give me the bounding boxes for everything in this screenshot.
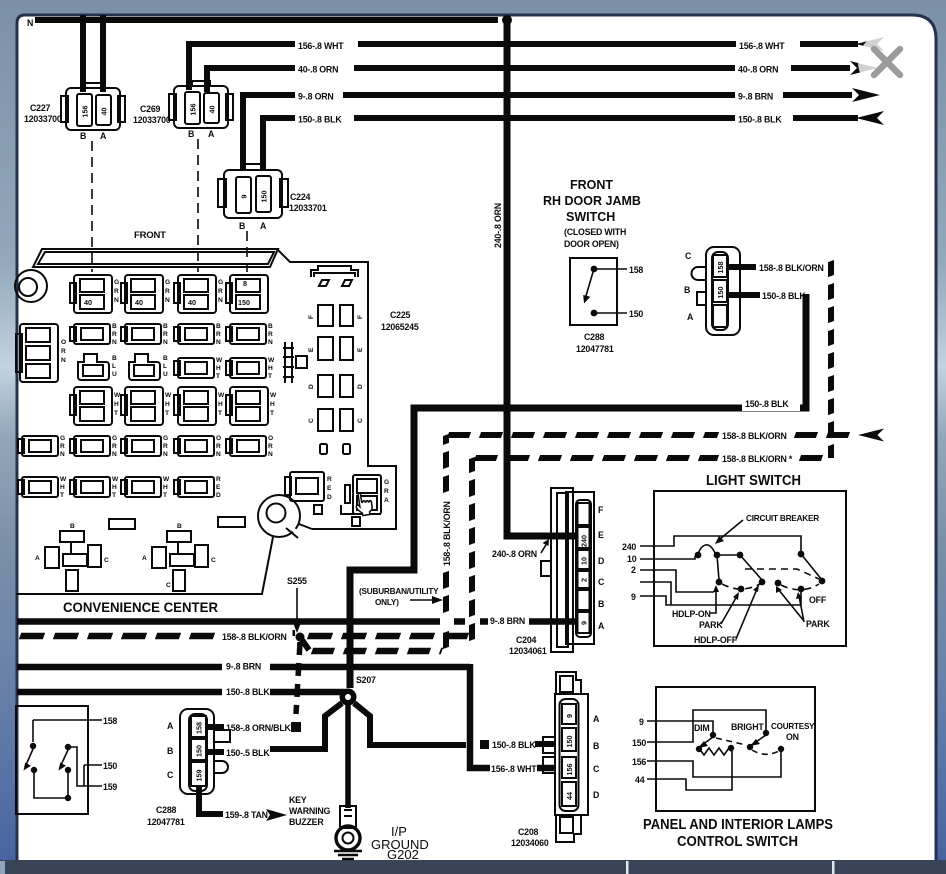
ground G202 ring terminal: [336, 806, 360, 850]
svg-text:10: 10: [580, 557, 589, 565]
wire dashed vertical V2 (from 158 BLK/ORN * wire): [469, 458, 475, 640]
wire dashed vertical from jamb 158 down: [828, 261, 834, 455]
svg-text:DIM: DIM: [694, 723, 710, 733]
svg-text:158-.8 BLK/ORN *: 158-.8 BLK/ORN *: [722, 454, 793, 464]
outline right portion: [278, 250, 396, 529]
contacts: [714, 552, 721, 559]
svg-text:G202: G202: [387, 847, 419, 862]
left column connector ORN: [20, 324, 58, 382]
svg-text:9: 9: [639, 717, 644, 727]
svg-text:DOOR OPEN): DOOR OPEN): [564, 239, 619, 249]
svg-text:HDLP-ON: HDLP-ON: [672, 609, 711, 619]
wire (dashed drop C269-B to convenience center): [197, 139, 199, 272]
svg-text:C288: C288: [156, 805, 177, 815]
wire dashed drop S255 to C288-A: [296, 642, 300, 714]
close button: [858, 33, 916, 91]
dashed travel lines: [722, 584, 760, 589]
svg-text:B: B: [239, 221, 245, 231]
svg-text:LIGHT SWITCH: LIGHT SWITCH: [706, 473, 801, 489]
svg-text:A: A: [593, 714, 600, 724]
svg-text:A: A: [260, 221, 267, 231]
svg-text:F: F: [357, 315, 364, 319]
svg-text:BUZZER: BUZZER: [289, 817, 324, 827]
svg-text:GRN: GRN: [114, 279, 119, 304]
svg-text:BRN: BRN: [163, 323, 168, 346]
svg-text:C: C: [104, 557, 109, 564]
svg-text:S207: S207: [356, 675, 376, 685]
svg-text:156: 156: [565, 764, 574, 776]
pin pair grid F E D C: [308, 305, 364, 431]
svg-text:158: 158: [629, 265, 643, 275]
svg-text:C269: C269: [140, 104, 161, 114]
wire S207 to ground: [345, 705, 351, 808]
svg-text:150-.8 BLK: 150-.8 BLK: [226, 687, 270, 697]
svg-text:ON: ON: [786, 732, 799, 742]
svg-text:A: A: [142, 555, 147, 562]
svg-text:C: C: [598, 577, 605, 587]
svg-text:150-.8 BLK: 150-.8 BLK: [745, 399, 789, 409]
svg-text:9: 9: [580, 621, 589, 625]
svg-text:240: 240: [580, 535, 589, 547]
wire S207 left branch to key switch C288-B: [270, 703, 342, 749]
connector C288 (door jamb): [684, 247, 740, 335]
hand cursor: [354, 492, 373, 516]
svg-text:9-.8 BRN: 9-.8 BRN: [738, 92, 773, 102]
svg-text:9-.8 BRN: 9-.8 BRN: [490, 616, 525, 626]
svg-text:C288: C288: [584, 332, 605, 342]
row1: fuse 40 GRN x3 + 8/150: [70, 275, 112, 313]
svg-text:A: A: [687, 312, 694, 322]
svg-text:BRIGHT: BRIGHT: [731, 722, 764, 732]
row6 WHT WHT WHT RED: [18, 477, 58, 497]
svg-text:12033701: 12033701: [289, 203, 327, 213]
svg-text:40: 40: [135, 298, 143, 307]
wire (dashed drop C227-B to convenience center): [91, 141, 93, 272]
svg-text:FRONT: FRONT: [134, 230, 166, 241]
bottom dark bar: [0, 860, 946, 874]
svg-text:158-.8 BLK/ORN: 158-.8 BLK/ORN: [222, 632, 287, 642]
wire 156-.8 WHT: [189, 44, 295, 90]
wire 150-.8 BLK: [263, 118, 295, 170]
svg-text:150: 150: [716, 287, 725, 299]
wire 158-.8 BLK/ORN * (dashed lower): [475, 455, 718, 461]
svg-text:CONTROL SWITCH: CONTROL SWITCH: [677, 834, 798, 850]
row3: BLU BLU WHT WHT: [78, 354, 109, 380]
small plain rects: [109, 519, 135, 529]
fuse ladder: [283, 342, 294, 383]
wire (dashed drop C224-B to convenience center): [246, 231, 248, 272]
svg-text:9: 9: [565, 714, 574, 718]
BRIGHT blade: [753, 735, 766, 744]
svg-text:159: 159: [195, 770, 204, 782]
svg-text:ORN: ORN: [216, 435, 221, 458]
svg-text:150-.5 BLK: 150-.5 BLK: [226, 748, 270, 758]
svg-text:156: 156: [632, 757, 646, 767]
svg-text:C208: C208: [518, 827, 539, 837]
svg-text:BRN: BRN: [112, 323, 117, 346]
svg-text:C: C: [593, 764, 600, 774]
junction S (dot at top of 240 wire): [502, 15, 512, 25]
small bottom pins: [320, 444, 327, 454]
svg-text:SWITCH: SWITCH: [566, 210, 615, 224]
wire 240-.8 ORN into C204-E: [507, 529, 577, 536]
svg-text:158-.8 BLK/ORN: 158-.8 BLK/ORN: [442, 501, 452, 566]
svg-text:A: A: [208, 129, 215, 139]
svg-text:40-.8 ORN: 40-.8 ORN: [738, 65, 778, 75]
svg-text:40-.8 ORN: 40-.8 ORN: [298, 65, 338, 75]
svg-text:9: 9: [631, 592, 636, 602]
svg-text:COURTESY: COURTESY: [771, 722, 815, 731]
svg-text:B: B: [80, 131, 86, 141]
svg-text:B: B: [188, 129, 194, 139]
svg-text:C: C: [211, 557, 216, 564]
svg-text:158-.8 BLK/ORN: 158-.8 BLK/ORN: [759, 263, 824, 273]
svg-text:E: E: [357, 347, 364, 352]
svg-text:F: F: [308, 315, 315, 319]
svg-text:159-.8 TAN: 159-.8 TAN: [225, 810, 268, 820]
svg-text:A: A: [598, 621, 605, 631]
grommet (top-left): [15, 270, 47, 302]
wire drop to C227 pin A: [100, 15, 106, 92]
svg-text:A: A: [35, 555, 40, 562]
svg-text:GRN: GRN: [163, 435, 168, 458]
panel switch internals: [632, 710, 815, 790]
svg-text:10: 10: [627, 554, 637, 564]
svg-text:N: N: [27, 18, 33, 28]
svg-text:12065245: 12065245: [381, 322, 419, 332]
svg-text:B: B: [70, 523, 75, 530]
svg-text:WARNING: WARNING: [289, 806, 330, 816]
svg-text:44: 44: [565, 792, 574, 800]
svg-text:(CLOSED WITH: (CLOSED WITH: [564, 227, 626, 237]
svg-text:D: D: [593, 790, 599, 800]
top rail: [33, 249, 278, 267]
wire drop to C227 pin B: [80, 15, 86, 92]
svg-text:GRN: GRN: [218, 279, 223, 304]
svg-text:C: C: [166, 582, 171, 589]
svg-text:40: 40: [84, 298, 92, 307]
svg-text:2: 2: [580, 578, 589, 582]
svg-text:158: 158: [103, 716, 117, 726]
svg-text:PARK: PARK: [806, 619, 830, 629]
svg-text:(SUBURBAN/UTILITY: (SUBURBAN/UTILITY: [359, 587, 439, 596]
svg-text:8: 8: [243, 279, 247, 288]
svg-text:150: 150: [260, 191, 269, 203]
wire 150 BLK from jamb switch down and across to S207: [350, 294, 806, 688]
node S255: [293, 630, 296, 636]
svg-text:158: 158: [195, 722, 204, 734]
svg-text:40: 40: [188, 298, 196, 307]
svg-text:150: 150: [565, 736, 574, 748]
convenience center outline: [15, 249, 396, 594]
convenience center cavity rows: [16, 266, 389, 591]
svg-text:S255: S255: [287, 576, 307, 586]
svg-text:150: 150: [629, 309, 643, 319]
svg-text:150: 150: [195, 745, 204, 757]
svg-text:RED: RED: [216, 476, 221, 499]
svg-text:150: 150: [632, 738, 646, 748]
svg-text:CONVENIENCE CENTER: CONVENIENCE CENTER: [63, 599, 218, 615]
connector C227: [24, 83, 125, 141]
svg-text:9-.8 BRN: 9-.8 BRN: [226, 662, 261, 672]
svg-text:158: 158: [716, 262, 725, 274]
wire 158-.8 ORN/BLK stub: [207, 724, 224, 730]
svg-text:GRN: GRN: [165, 279, 170, 304]
wire 158-.8 BLK/ORN (dashed with left arrow, from off-page): [448, 432, 718, 438]
grommet (bottom-right of CC): [258, 495, 300, 537]
wire S207 right branch to C208-B (150-.8 BLK): [354, 703, 466, 745]
svg-text:ONLY): ONLY): [375, 598, 399, 607]
svg-text:B: B: [593, 741, 599, 751]
svg-text:156: 156: [189, 104, 198, 116]
svg-text:D: D: [308, 384, 315, 389]
relay tree 2: [142, 523, 216, 591]
svg-text:BRN: BRN: [216, 323, 221, 346]
svg-text:40: 40: [208, 106, 217, 114]
svg-text:150-.8 BLK: 150-.8 BLK: [738, 115, 782, 125]
svg-text:BRN: BRN: [268, 323, 273, 346]
wire 150-.8 BLK stub from C288 jamb: [728, 292, 760, 298]
svg-text:150: 150: [103, 761, 117, 771]
svg-text:240-.8 ORN: 240-.8 ORN: [493, 203, 503, 248]
relay tree 1: [35, 523, 109, 591]
wire bus 150-.8 BLK (lower solid, ends at S207 drop): [17, 689, 222, 696]
svg-text:PANEL AND INTERIOR LAMPS: PANEL AND INTERIOR LAMPS: [643, 817, 833, 833]
svg-text:9-.8 ORN: 9-.8 ORN: [298, 92, 334, 102]
small hooks: [319, 280, 329, 286]
svg-text:OFF: OFF: [809, 595, 827, 605]
svg-text:RED: RED: [327, 476, 332, 501]
wire 150-.8 BLK horizontal mid label: [742, 398, 800, 411]
svg-text:A: A: [100, 131, 107, 141]
svg-text:C225: C225: [390, 310, 411, 320]
svg-text:159: 159: [103, 782, 117, 792]
svg-text:FRONT: FRONT: [570, 178, 613, 192]
svg-text:C227: C227: [30, 103, 51, 113]
svg-text:150: 150: [238, 298, 250, 307]
svg-text:12047781: 12047781: [576, 344, 614, 354]
svg-text:D: D: [598, 556, 604, 566]
svg-text:HDLP-OFF: HDLP-OFF: [694, 635, 738, 645]
svg-text:150-.8 BLK: 150-.8 BLK: [762, 291, 806, 301]
svg-text:B: B: [684, 285, 690, 295]
svg-text:B: B: [598, 599, 604, 609]
svg-text:44: 44: [635, 775, 645, 785]
wire bus 158-.8 BLK/ORN (dashed): [20, 633, 216, 640]
svg-text:E: E: [598, 530, 604, 540]
svg-text:D: D: [357, 384, 364, 389]
svg-text:12034060: 12034060: [511, 838, 549, 848]
svg-text:C: C: [685, 251, 692, 261]
svg-text:240-.8 ORN: 240-.8 ORN: [492, 549, 537, 559]
svg-text:E: E: [308, 347, 315, 352]
svg-text:B: B: [167, 746, 173, 756]
svg-text:C: C: [357, 418, 364, 423]
svg-text:2: 2: [631, 565, 636, 575]
svg-text:156-.8 WHT: 156-.8 WHT: [491, 764, 537, 774]
wire bus middle solid (to 156-.8 WHT / C208-C): [17, 664, 222, 671]
label 158-.8 BLK/ORN rotated on vertical: [438, 494, 453, 568]
svg-text:PARK: PARK: [699, 620, 723, 630]
DIM blade + rheostat: [702, 737, 713, 745]
svg-text:B: B: [177, 523, 182, 530]
connector GRA: [353, 475, 381, 514]
row4 WHT x4 tall: [70, 387, 112, 425]
svg-text:C224: C224: [290, 192, 311, 202]
svg-text:ORN: ORN: [61, 339, 66, 364]
wire 9-.8 ORN / 9-.8 BRN: [243, 95, 295, 170]
svg-text:GRN: GRN: [112, 435, 117, 458]
wire 158-.8 BLK/ORN stub from C288 jamb: [728, 264, 756, 270]
svg-text:40: 40: [100, 108, 109, 116]
wire second dashed bus 158 BLK/ORN: [302, 640, 309, 650]
svg-text:GRN: GRN: [60, 435, 65, 458]
svg-text:ORN: ORN: [268, 435, 273, 458]
svg-text:158-.8 BLK/ORN: 158-.8 BLK/ORN: [722, 431, 787, 441]
wire 159-.8 TAN to buzzer: [199, 786, 223, 814]
wire 240-.8 ORN vertical: [504, 22, 511, 532]
connector C204: [509, 488, 605, 656]
svg-text:12033700: 12033700: [133, 115, 171, 125]
svg-text:156: 156: [81, 106, 90, 118]
svg-text:C: C: [308, 418, 315, 423]
light switch box: [654, 491, 846, 646]
svg-text:CIRCUIT BREAKER: CIRCUIT BREAKER: [746, 514, 819, 523]
connector RED (big): [290, 472, 324, 501]
svg-text:150-.8 BLK: 150-.8 BLK: [492, 740, 536, 750]
connector C269: [133, 81, 233, 139]
wire bus 9-.8 BRN (upper solid bus to C204-A): [17, 618, 440, 625]
row2 BRN x4: [70, 324, 110, 344]
panel switch box: [656, 687, 815, 811]
key warning switch box: [16, 706, 88, 814]
light switch internals: [622, 514, 830, 645]
svg-text:F: F: [598, 505, 604, 515]
jamb switch box: [570, 258, 617, 325]
svg-text:C204: C204: [516, 635, 537, 645]
svg-text:KEY: KEY: [289, 795, 307, 805]
connector C288 (key warning): [147, 709, 230, 827]
svg-text:9: 9: [240, 195, 249, 199]
wire 40-.8 ORN: [207, 68, 295, 92]
circuit breaker: [698, 545, 717, 555]
connector C224: [218, 164, 327, 231]
svg-text:12047781: 12047781: [147, 817, 185, 827]
row5 GRN GRN GRN ORN ORN: [18, 436, 58, 456]
svg-text:156-.8 WHT: 156-.8 WHT: [739, 41, 785, 51]
svg-text:150-.8 BLK: 150-.8 BLK: [298, 115, 342, 125]
svg-text:240: 240: [622, 542, 636, 552]
outline left edge and bottom: [16, 537, 273, 594]
bench bracket at top of pin grid: [311, 266, 358, 277]
svg-text:A: A: [167, 721, 174, 731]
svg-text:12033700: 12033700: [24, 114, 62, 124]
svg-text:RH DOOR JAMB: RH DOOR JAMB: [543, 194, 641, 208]
svg-text:12034061: 12034061: [509, 646, 547, 656]
svg-text:158-.8 ORN/BLK: 158-.8 ORN/BLK: [226, 723, 292, 733]
svg-text:C: C: [167, 770, 174, 780]
ground symbol: [334, 851, 362, 859]
svg-text:GRA: GRA: [384, 479, 389, 504]
svg-text:156-.8 WHT: 156-.8 WHT: [298, 41, 344, 51]
connector C208: [511, 672, 600, 848]
